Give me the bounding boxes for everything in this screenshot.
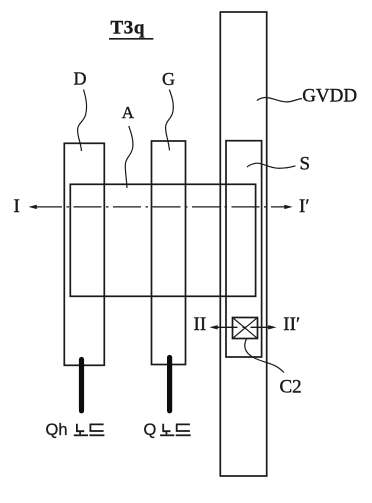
active region A rectangle (70, 184, 255, 296)
contact C2 box with X (233, 318, 258, 339)
section line II-II' (dash-dot with arrows) (215, 326, 272, 328)
arrowhead II' (right) (268, 325, 276, 329)
source electrode S rectangle (226, 141, 262, 357)
hangul 노드 drawn as strokes (160, 424, 191, 436)
svg-text:II: II (194, 314, 207, 335)
leader from C2 to contact box (245, 339, 284, 373)
svg-text:D: D (74, 69, 87, 89)
GVDD power line rectangle (220, 12, 266, 476)
svg-text:Q: Q (144, 421, 157, 439)
svg-text:GVDD: GVDD (302, 86, 357, 107)
arrowhead II (left) (209, 325, 217, 329)
label Q node (Q 노드) (144, 421, 191, 439)
leader from GVDD to power line (257, 97, 302, 101)
svg-text:T3q: T3q (111, 18, 146, 39)
section line I-I' (dash-dot) (34, 206, 287, 208)
svg-text:S: S (300, 154, 311, 175)
hangul 노드 drawn as strokes (74, 424, 105, 436)
leader from A to active region (125, 126, 133, 188)
svg-text:I: I (14, 196, 20, 217)
leader from S to source electrode (247, 163, 295, 168)
drain electrode D rectangle (64, 143, 104, 365)
svg-text:Qh: Qh (46, 421, 68, 439)
Q node contact (thick lead) (167, 358, 172, 411)
leader from G to gate electrode (166, 90, 174, 151)
title T3q (109, 18, 153, 39)
svg-text:C2: C2 (280, 377, 302, 398)
label Qh node (Qh 노드) (46, 421, 105, 439)
gate electrode G rectangle (152, 141, 186, 365)
arrowhead I (left) (29, 205, 37, 209)
svg-text:II′: II′ (283, 314, 300, 335)
Qh node contact (thick lead) (79, 360, 84, 411)
svg-text:G: G (162, 69, 175, 89)
svg-text:A: A (122, 103, 135, 122)
arrowhead I' (right) (284, 205, 292, 209)
svg-text:I′: I′ (299, 196, 309, 217)
leader from D to drain electrode (78, 90, 87, 152)
